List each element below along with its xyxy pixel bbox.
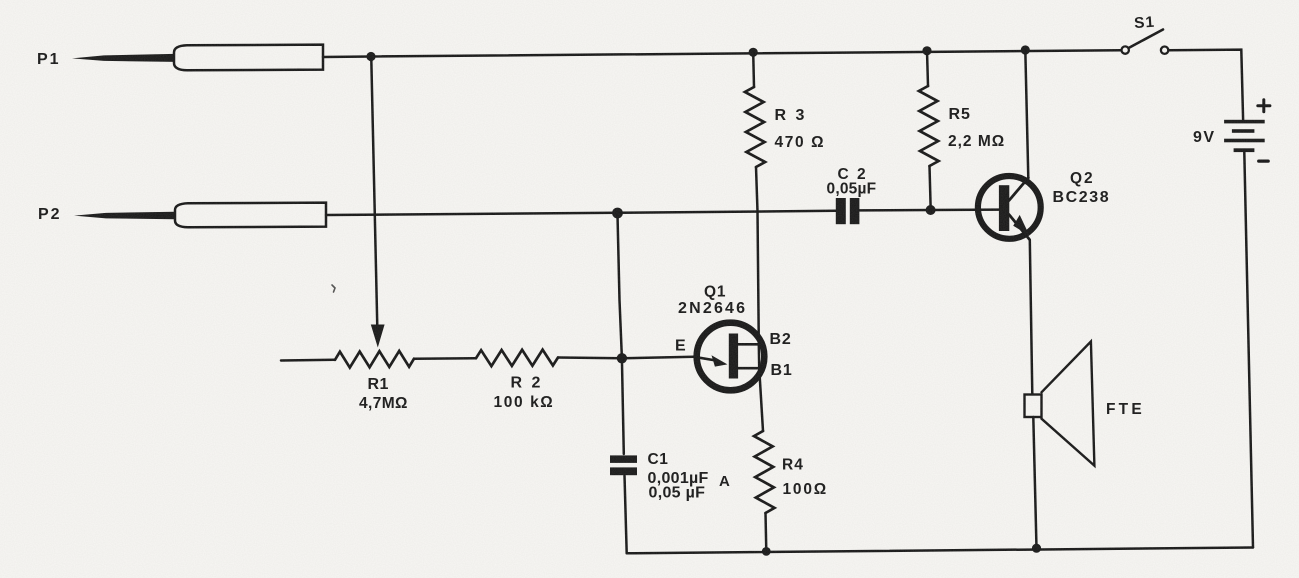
speck artifact (332, 285, 335, 292)
Q1 B2 lead (738, 343, 759, 346)
svg-text:100Ω: 100Ω (783, 481, 829, 498)
Q1 emitter arrowhead (712, 355, 728, 366)
Q2 base bar (999, 185, 1009, 231)
svg-text:2N2646: 2N2646 (678, 300, 747, 317)
svg-text:100 kΩ: 100 kΩ (494, 394, 555, 411)
svg-text:C1: C1 (648, 451, 669, 468)
svg-text:S1: S1 (1134, 14, 1156, 32)
Q1 base bar (729, 334, 738, 379)
wire E (J2 to Q1) (622, 357, 694, 359)
probe P2 body (175, 203, 326, 228)
switch S1 right contact (1161, 47, 1168, 54)
wire S1 to battery corner (1169, 50, 1244, 120)
node J4 (R5/C2/Q2 base) (926, 205, 936, 215)
wire speaker to bottom rail (1033, 417, 1036, 548)
capacitor C2 left plate (836, 198, 846, 224)
probe P2 tip (74, 212, 175, 220)
svg-text:R5: R5 (949, 106, 971, 123)
wire R2 to node J2 (558, 356, 622, 359)
capacitor C2 right plate (850, 198, 860, 224)
node J2 (R2/E/C1 junction) (617, 353, 627, 363)
svg-text:2,2 MΩ: 2,2 MΩ (948, 133, 1005, 150)
UJT Q1 circle (697, 323, 765, 391)
wire probe P1 to node J1 (323, 55, 371, 58)
svg-text:P2: P2 (38, 206, 62, 223)
wire top rail J1 to S1 (371, 50, 1121, 56)
wire Q2 collector to top rail (1025, 50, 1028, 178)
node Q2 collector top (1021, 45, 1030, 54)
wire R1 wiper arm vertical (371, 59, 377, 327)
svg-text:BC238: BC238 (1053, 189, 1111, 206)
wire left lead of R1 (281, 359, 335, 362)
wire J4 to Q2 base (931, 208, 1000, 211)
svg-text:FTE: FTE (1106, 401, 1145, 418)
svg-text:A: A (719, 473, 730, 490)
battery plus sign (1258, 100, 1270, 112)
bottom rail (627, 548, 1253, 554)
resistor R1 (335, 351, 414, 368)
node speaker bottom (1032, 544, 1041, 553)
wire R4 to bottom rail (764, 513, 767, 552)
svg-text:Q2: Q2 (1070, 170, 1095, 187)
svg-text:Q1: Q1 (704, 284, 726, 301)
svg-text:P1: P1 (37, 51, 61, 68)
node R3 top (749, 48, 758, 57)
wire C2 to node J4 (859, 209, 930, 212)
svg-text:E: E (675, 338, 686, 355)
Q2 collector diagonal (1009, 178, 1028, 201)
svg-text:R1: R1 (368, 376, 389, 393)
capacitor C1 bottom plate (610, 467, 637, 475)
wire R3 top lead (752, 52, 755, 87)
wire R1 to R2 (414, 357, 476, 360)
svg-text:R 2: R 2 (511, 375, 543, 392)
capacitor C1 top plate (610, 455, 637, 463)
svg-text:9V: 9V (1193, 129, 1216, 146)
resistor R4 (754, 431, 775, 513)
svg-text:R 3: R 3 (775, 107, 807, 124)
battery plate 1 long (1224, 120, 1265, 124)
resistor R2 (476, 350, 558, 367)
probe P1 tip (72, 54, 174, 62)
switch S1 left contact (1122, 46, 1129, 53)
svg-text:B1: B1 (771, 362, 793, 379)
arrowhead onto R1 (371, 325, 385, 348)
Q2 emitter arrowhead (1013, 215, 1029, 235)
wire C1 to bottom rail corner (625, 476, 627, 554)
wire vertical J3 down to J2 and C1 (618, 215, 624, 454)
wire battery to bottom right corner (1244, 152, 1253, 547)
Q1 B1 lead (738, 367, 759, 370)
node R4 bottom (762, 547, 771, 556)
node R5 top (922, 46, 931, 55)
wire P2 line J3 to C2 (618, 211, 836, 213)
probe P1 body (174, 45, 323, 71)
svg-text:B2: B2 (770, 331, 792, 348)
battery plate 3 long (1224, 139, 1265, 143)
resistor R3 (745, 87, 765, 167)
battery plate 2 short (1232, 129, 1255, 133)
wire Q2 emitter down to speaker (1030, 240, 1033, 395)
wire R3 bottom through P2 line to R4 (756, 167, 763, 431)
switch S1 arm (1130, 30, 1164, 48)
svg-text:R4: R4 (782, 457, 804, 474)
node J1 (P1 junction) (366, 52, 375, 61)
node J3 (P2 junction) (612, 208, 623, 219)
wire probe P2 to node J3 (326, 213, 618, 215)
transistor Q2 circle (978, 176, 1041, 239)
svg-text:0,05 µF: 0,05 µF (649, 485, 706, 502)
battery plate 4 short (1234, 148, 1255, 152)
speaker box (1025, 395, 1042, 418)
Q2 emitter diagonal (1009, 215, 1030, 240)
svg-text:0,05µF: 0,05µF (827, 181, 877, 198)
resistor R5 (919, 86, 939, 166)
battery minus sign (1259, 160, 1269, 163)
paper noise overlay (0, 0, 1, 1)
wire R5 top lead (927, 51, 928, 86)
speaker cone (1042, 342, 1095, 466)
svg-text:470 Ω: 470 Ω (775, 134, 826, 151)
Q1 emitter diagonal (694, 357, 716, 361)
svg-text:4,7MΩ: 4,7MΩ (359, 395, 408, 412)
wire R5 bottom lead (930, 166, 931, 206)
